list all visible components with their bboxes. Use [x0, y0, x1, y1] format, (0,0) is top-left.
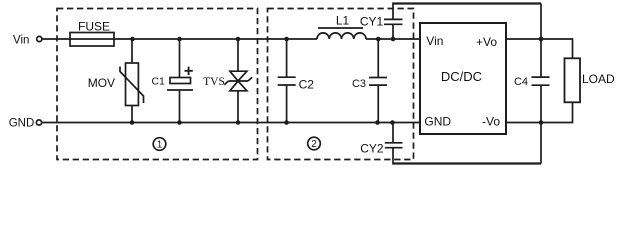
svg-text:FUSE: FUSE — [78, 19, 110, 33]
svg-text:TVS: TVS — [203, 76, 225, 88]
svg-text:-Vo: -Vo — [482, 115, 500, 129]
svg-text:C1: C1 — [151, 76, 165, 88]
svg-text:1: 1 — [157, 140, 163, 151]
svg-text:Vin: Vin — [13, 34, 29, 46]
svg-text:MOV: MOV — [88, 76, 115, 90]
svg-text:GND: GND — [9, 117, 35, 129]
svg-text:CY1: CY1 — [360, 14, 384, 28]
svg-text:+Vo: +Vo — [476, 35, 497, 49]
svg-text:Vin: Vin — [426, 34, 443, 48]
svg-text:C3: C3 — [352, 78, 366, 90]
svg-text:DC/DC: DC/DC — [441, 69, 482, 84]
svg-text:2: 2 — [311, 139, 317, 150]
svg-text:C4: C4 — [514, 76, 528, 88]
svg-text:GND: GND — [424, 115, 451, 129]
svg-text:C2: C2 — [299, 78, 315, 92]
svg-text:LOAD: LOAD — [582, 72, 615, 86]
svg-text:L1: L1 — [336, 13, 350, 27]
svg-text:CY2: CY2 — [360, 141, 384, 155]
